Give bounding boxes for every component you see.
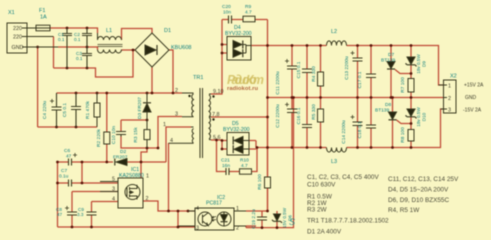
wire aux pin4 to opto row — [168, 143, 170, 211]
wire pin3 riser — [158, 117, 182, 149]
svg-text:C11 2200u: C11 2200u — [275, 71, 281, 94]
node dots filter — [86, 46, 89, 49]
wire IC1 pin3 row — [72, 192, 118, 213]
node dots minus rail — [256, 146, 259, 149]
resistor R10 — [240, 169, 252, 174]
wire C14 column — [357, 98, 359, 148]
svg-text:C5 0.1: C5 0.1 — [62, 103, 68, 117]
svg-text:220: 220 — [13, 26, 22, 32]
svg-text:X2: X2 — [450, 74, 457, 80]
wire bridge right drop — [169, 50, 173, 93]
wire IC1 pin2 to opto — [143, 201, 195, 211]
svg-text:1: 1 — [448, 84, 451, 90]
wire D4 out — [251, 45, 268, 47]
node dots D2 row — [56, 161, 59, 164]
inductor L1 bottom winding — [98, 50, 122, 54]
svg-text:KBU608: KBU608 — [171, 45, 192, 51]
wire plus rail — [268, 46, 444, 86]
capacitor C17 — [366, 74, 376, 78]
zener D10 — [406, 109, 417, 118]
capacitor C4 — [52, 93, 62, 127]
capacitor C13 plus — [351, 51, 355, 55]
svg-text:PC817: PC817 — [206, 201, 222, 207]
svg-text:D3 FR207: D3 FR207 — [137, 97, 143, 119]
svg-text:D8: D8 — [385, 102, 391, 108]
resistor R7 — [408, 79, 414, 93]
svg-text:L2: L2 — [331, 29, 337, 35]
wire clamp top row — [121, 120, 147, 132]
svg-text:BYV32-200: BYV32-200 — [223, 127, 250, 133]
node dots opto row — [167, 210, 170, 213]
node dots primary top — [66, 27, 69, 30]
resistor R8 — [408, 130, 414, 142]
transformer TR1 primary winding — [182, 93, 194, 117]
wire IC1 pin4 row — [92, 202, 119, 213]
svg-text:R8 100: R8 100 — [400, 127, 406, 143]
svg-text:FR207: FR207 — [113, 155, 128, 161]
svg-text:3: 3 — [196, 226, 199, 232]
svg-text:16n: 16n — [222, 163, 230, 169]
svg-text:C4 220u: C4 220u — [42, 101, 48, 119]
capacitor C11 — [287, 66, 297, 69]
svg-text:C13 2200u: C13 2200u — [344, 56, 350, 80]
wire D4 anode stubs — [222, 45, 227, 54]
capacitor C6 — [69, 159, 72, 166]
label R10 — [240, 158, 249, 170]
svg-text:C17 0.1: C17 0.1 — [357, 71, 363, 88]
capacitor C7 — [69, 180, 72, 187]
thyristor D8 — [389, 112, 397, 120]
wire minus rail — [256, 109, 444, 148]
capacitor C20 — [229, 16, 232, 24]
capacitor C1 — [62, 28, 72, 68]
svg-text:4.7: 4.7 — [241, 163, 248, 169]
wire choke top out to bridge — [122, 29, 153, 41]
label C21 — [221, 158, 230, 170]
svg-text:4: 4 — [196, 206, 199, 212]
svg-text:1: 1 — [236, 206, 239, 212]
wire feedback bottom row — [246, 98, 294, 228]
capacitor C5 — [71, 93, 81, 127]
svg-text:7,8: 7,8 — [212, 112, 220, 118]
capacitor C8 plus — [65, 206, 69, 210]
label C20 — [222, 4, 231, 16]
label IC2 — [206, 195, 225, 207]
wire D5 anode tie — [249, 141, 256, 150]
wire gnd rail — [268, 97, 444, 99]
wire IC1 drain riser — [141, 148, 147, 178]
wire C16 column — [306, 98, 308, 148]
svg-text:S: S — [289, 217, 295, 227]
capacitor C21 — [226, 168, 229, 175]
svg-text:D6, D9, D10 BZX55C: D6, D9, D10 BZX55C — [388, 197, 449, 204]
svg-text:220: 220 — [13, 35, 22, 41]
svg-text:0.1: 0.1 — [58, 37, 65, 42]
svg-text:3: 3 — [175, 112, 178, 118]
capacitor C15 — [302, 69, 312, 73]
wire C8 bottom stub — [71, 215, 73, 227]
wire secondary 9-10 tie — [211, 20, 222, 95]
resistor R2 — [104, 132, 110, 144]
wire D6 stub — [276, 211, 278, 228]
svg-text:R10: R10 — [240, 158, 249, 164]
wire left drop to bottom bus — [57, 183, 59, 227]
wire D9 R7 column — [410, 46, 412, 98]
wire C7 right riser — [81, 162, 83, 183]
wire X1 pin leads — [22, 28, 58, 47]
svg-text:1: 1 — [163, 122, 166, 128]
svg-text:0.1: 0.1 — [74, 37, 81, 42]
svg-text:4: 4 — [170, 138, 173, 144]
wire D7 column — [390, 46, 392, 98]
svg-text:5: 5 — [112, 177, 115, 183]
svg-text:0.1u: 0.1u — [59, 174, 69, 180]
svg-text:R2 220k: R2 220k — [96, 128, 102, 146]
transformer phase dots — [188, 95, 214, 121]
wire primary bus — [57, 92, 183, 94]
zener D6 — [272, 214, 282, 223]
svg-text:C6: C6 — [64, 148, 70, 154]
svg-text:R3 15k: R3 15k — [133, 127, 139, 143]
svg-text:-15V 2A: -15V 2A — [463, 108, 482, 114]
svg-text:2: 2 — [448, 96, 451, 102]
inductor L1 core — [98, 45, 123, 47]
svg-text:GND: GND — [465, 95, 477, 101]
node dots 5-6 row — [221, 139, 224, 142]
label C1 — [58, 32, 65, 42]
svg-text:2: 2 — [146, 196, 149, 202]
watermark radiokot — [227, 73, 264, 92]
wire opto pin1 row — [246, 210, 268, 212]
svg-text:C19 2.2u: C19 2.2u — [251, 209, 257, 229]
label C9 — [77, 207, 84, 217]
svg-text:BT139: BT139 — [381, 58, 395, 64]
label IC1 — [119, 167, 144, 179]
resistor R5 — [318, 109, 324, 122]
node dots primary bus — [75, 92, 78, 95]
node dots D4 — [221, 43, 224, 46]
svg-text:10n: 10n — [223, 10, 231, 16]
svg-text:R1 470k: R1 470k — [85, 100, 91, 118]
capacitor C19 — [257, 217, 267, 220]
svg-text:R4 330: R4 330 — [311, 66, 317, 82]
svg-text:D9: D9 — [422, 61, 427, 67]
svg-text:X1: X1 — [8, 10, 15, 16]
svg-text:18v 0.5W: 18v 0.5W — [416, 107, 421, 127]
label C7 — [59, 168, 69, 180]
wire C19 stub — [261, 211, 263, 228]
capacitor C14 plus — [351, 115, 355, 119]
wire D8 gate — [397, 120, 412, 124]
svg-text:L3: L3 — [331, 159, 337, 165]
svg-text:R5 330: R5 330 — [311, 104, 317, 120]
wire R4 column — [320, 46, 322, 98]
capacitor C3 — [82, 47, 92, 68]
svg-text:15V 0.5W: 15V 0.5W — [282, 207, 287, 228]
svg-text:C12 2200u: C12 2200u — [275, 104, 281, 128]
svg-text:D1: D1 — [164, 28, 171, 34]
wire R2 column — [106, 93, 108, 162]
label C8 — [56, 207, 63, 217]
wire bank bottom bus — [38, 126, 97, 128]
svg-text:4: 4 — [112, 197, 115, 203]
svg-text:2: 2 — [175, 88, 178, 94]
svg-text:1: 1 — [146, 174, 149, 180]
svg-text:D7: D7 — [388, 52, 394, 58]
wire aux pin1 to D2 row — [166, 127, 191, 162]
svg-text:L1: L1 — [106, 28, 112, 34]
node dots bank bottom — [55, 126, 58, 129]
label C2 — [74, 32, 81, 42]
IC1 KA2S0880 — [118, 178, 143, 208]
zener D9 — [406, 57, 417, 66]
svg-text:radiokot.ru: radiokot.ru — [227, 86, 258, 92]
svg-text:C11, C12, C13, C14 25V: C11, C12, C13, C14 25V — [388, 176, 459, 183]
node dots clamp — [146, 147, 149, 150]
wire D7 gate — [395, 70, 411, 74]
svg-text:3.3: 3.3 — [77, 212, 84, 217]
resistor R9 — [243, 16, 255, 22]
wire clamp bottom row — [121, 137, 158, 149]
wire bridge plus drop — [151, 67, 153, 93]
svg-text:C1, C2, C3, C4, C5 400V: C1, C2, C3, C4, C5 400V — [307, 174, 379, 181]
wire C12 column — [291, 98, 293, 148]
svg-text:D4, D5 15~20A 200V: D4, D5 15~20A 200V — [388, 187, 449, 194]
svg-text:D10: D10 — [422, 112, 427, 121]
wire GND loop drop — [37, 47, 39, 127]
svg-text:D1 2A 400V: D1 2A 400V — [307, 229, 342, 236]
resistor R1 — [94, 93, 100, 127]
svg-text:0.1: 0.1 — [76, 56, 83, 61]
svg-text:C20: C20 — [222, 4, 231, 10]
capacitor C2 — [82, 28, 92, 47]
wire choke bottom out to bridge — [122, 49, 136, 52]
svg-text:9,10: 9,10 — [213, 89, 224, 95]
svg-text:D2: D2 — [120, 149, 126, 155]
thyristor D7 — [387, 62, 395, 70]
capacitor C6 plus — [73, 153, 77, 157]
svg-text:C21: C21 — [221, 158, 230, 164]
capacitor C14 — [353, 122, 363, 126]
svg-text:KA2S0880: KA2S0880 — [119, 173, 144, 179]
wire feedback row left — [246, 227, 256, 229]
svg-text:РадиоКот: РадиоКот — [227, 73, 264, 87]
wire snubber2 row — [217, 140, 258, 172]
wire C17 column — [370, 46, 372, 98]
wire C15 column — [306, 46, 308, 98]
node dots opto right — [266, 210, 269, 213]
wire mid link column — [267, 20, 269, 212]
svg-text:TR1: TR1 — [193, 75, 203, 81]
label D7 — [381, 52, 395, 64]
svg-text:C10 10n: C10 10n — [111, 126, 117, 144]
svg-text:C18 0.1: C18 0.1 — [357, 121, 363, 138]
capacitor C9 — [87, 212, 97, 215]
transformer TR1 aux winding — [169, 127, 194, 143]
capacitor C13 — [353, 58, 363, 61]
capacitor C16 — [302, 125, 312, 128]
svg-text:R6 100: R6 100 — [257, 174, 263, 190]
node dots C7 row — [56, 182, 59, 185]
svg-text:C14 2200u: C14 2200u — [341, 120, 347, 144]
bridge rectifier D1 — [135, 33, 169, 67]
capacitor C11 plus — [285, 59, 289, 63]
resistor R3 — [144, 120, 150, 148]
svg-text:C15 0.1: C15 0.1 — [296, 61, 302, 78]
label D8 — [375, 102, 391, 114]
wire bottom primary bus — [58, 226, 196, 228]
capacitor C12 plus — [285, 103, 289, 107]
node dots gnd rail — [266, 96, 269, 99]
wire R5 column — [320, 98, 322, 148]
connector X2 — [439, 80, 457, 113]
transformer TR1 core — [200, 88, 203, 158]
label D5 — [223, 121, 250, 133]
wire D10 R8 column — [410, 98, 412, 148]
label D4 — [225, 25, 252, 37]
fuse F1 — [36, 25, 50, 31]
inductor L3 — [327, 148, 347, 153]
svg-text:R7 100: R7 100 — [400, 77, 406, 93]
wire mains L after fuse — [50, 28, 98, 33]
wire C18 column — [370, 98, 372, 148]
wire D5 cathode stubs — [222, 141, 227, 150]
label D2 — [113, 149, 128, 161]
svg-text:GND: GND — [12, 45, 24, 51]
label C3 — [76, 51, 83, 61]
wire snubber C20 row — [222, 19, 268, 21]
svg-text:C16 0.1: C16 0.1 — [296, 107, 302, 124]
node dots 7-8 row — [266, 116, 269, 119]
wire D8 column — [392, 98, 394, 148]
wire IC1 pin leads — [100, 182, 118, 192]
svg-text:3: 3 — [448, 108, 451, 114]
svg-text:BYV32-200: BYV32-200 — [225, 31, 252, 37]
wire R6 column — [267, 117, 269, 211]
wire IC2 pin leads — [178, 211, 246, 226]
svg-text:R4, R5 1W: R4, R5 1W — [388, 207, 420, 214]
svg-text:1A: 1A — [40, 15, 47, 21]
capacitor C12 — [287, 109, 297, 113]
label C6 — [64, 148, 72, 160]
wire opto link stub — [177, 211, 179, 227]
capacitor C4 plus — [50, 99, 54, 103]
svg-text:R3 2W: R3 2W — [307, 207, 327, 214]
svg-text:R9: R9 — [245, 4, 251, 10]
capacitor C8 — [67, 212, 77, 215]
inductor L1 top winding — [98, 33, 122, 40]
wire filter bottom row — [54, 50, 136, 77]
connector X1 — [7, 23, 27, 53]
svg-text:47: 47 — [57, 212, 63, 217]
wire GND row to choke — [58, 47, 98, 50]
resistor R6 — [265, 177, 271, 188]
wire mains N drop to filter bottom row — [53, 37, 55, 69]
diode D3 — [143, 93, 151, 120]
dual diode D5 — [227, 133, 249, 156]
svg-text:5,6: 5,6 — [213, 135, 221, 141]
wire C9 bottom stub — [91, 215, 93, 227]
svg-text:+15V 2A: +15V 2A — [464, 83, 484, 89]
svg-text:47: 47 — [66, 154, 72, 160]
svg-text:4.7: 4.7 — [245, 10, 252, 16]
wire D2 supply row — [58, 161, 167, 163]
wire secondary 5-6 row — [211, 139, 222, 141]
node dots protection gates — [410, 72, 413, 75]
optocoupler IC2 — [195, 208, 234, 230]
wire secondary 7-8 row — [211, 116, 268, 118]
inductor L2 — [327, 41, 347, 46]
capacitor C18 — [366, 125, 376, 128]
svg-text:C7: C7 — [61, 168, 67, 174]
node dots bottom bus — [71, 226, 74, 229]
svg-text:3: 3 — [112, 187, 115, 193]
diode D2 — [115, 159, 127, 166]
wire C11 column — [291, 46, 293, 98]
svg-text:C10 630V: C10 630V — [307, 182, 336, 189]
svg-text:2: 2 — [236, 226, 239, 232]
svg-text:F1: F1 — [39, 8, 45, 14]
node dots plus rail — [266, 44, 269, 47]
wire C7 row — [58, 162, 119, 183]
svg-text:TR1 T18.7.7.7.18.2002.1502: TR1 T18.7.7.7.18.2002.1502 — [307, 218, 389, 225]
resistor R4 — [318, 72, 324, 86]
transformer TR1 secondary winding bottom — [209, 117, 211, 139]
dual diode D4 — [227, 37, 251, 61]
wire C13 column — [357, 46, 359, 98]
svg-text:BT139: BT139 — [375, 108, 389, 114]
label R9 — [245, 4, 252, 16]
transformer TR1 secondary winding top — [209, 94, 211, 117]
svg-text:18v 0.5W: 18v 0.5W — [416, 54, 421, 74]
capacitor C10 — [116, 132, 126, 137]
